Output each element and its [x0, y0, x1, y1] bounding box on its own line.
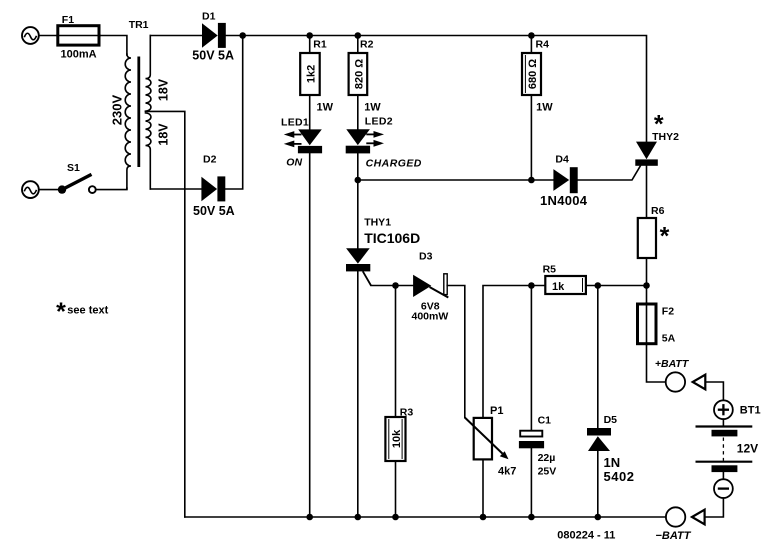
potentiometer P1 [465, 405, 517, 478]
svg-text:−BATT: −BATT [656, 530, 692, 542]
svg-text:*: * [660, 223, 670, 251]
svg-text:P1: P1 [490, 405, 503, 417]
svg-text:4k7: 4k7 [498, 466, 516, 478]
svg-text:1W: 1W [317, 102, 334, 114]
zener diode D3 [412, 251, 449, 323]
svg-text:see text: see text [67, 305, 108, 317]
gate row wire LED2 to D4 [358, 179, 554, 181]
primary winding 230V [125, 54, 131, 189]
wire P1 to bottom rail [482, 459, 484, 517]
secondary winding 18V (bottom) [146, 113, 151, 189]
resistor R1 [300, 39, 333, 114]
wire block to minus circle [722, 472, 724, 479]
wire minus circle to -BATT arrow [705, 498, 724, 517]
node R1 top [306, 32, 313, 39]
svg-text:LED2: LED2 [365, 116, 393, 128]
AC source top [22, 27, 39, 44]
wire R4 to gate row [530, 95, 532, 180]
wire F1 to transformer primary [100, 36, 127, 56]
resistor R2 [349, 39, 382, 114]
terminal +BATT [655, 358, 690, 392]
wire C1 to bottom rail [530, 448, 532, 517]
wire switch to primary [96, 188, 127, 190]
svg-text:820 Ω: 820 Ω [353, 59, 365, 89]
AC source bottom [22, 181, 39, 198]
svg-text:18V: 18V [157, 123, 171, 146]
fuse F2 [638, 303, 676, 345]
resistor R6 [638, 205, 670, 258]
node LED1 bottom rail [306, 514, 313, 521]
node after D1 [239, 32, 246, 39]
wire THY1 cathode to bottom rail [357, 271, 359, 517]
node R5/R6/F2 [643, 282, 650, 289]
wire node to R4 [530, 36, 532, 54]
svg-text:D1: D1 [202, 11, 216, 23]
wire R6 to F2 with node [646, 258, 648, 304]
svg-text:R3: R3 [400, 407, 414, 419]
svg-text:LED1: LED1 [281, 117, 309, 129]
wire D1 to node, top rail [226, 36, 647, 142]
arrow at -BATT [692, 510, 705, 525]
diode D4 [540, 154, 588, 209]
svg-text:1k: 1k [552, 281, 565, 293]
wire THY2 cathode to R6 [646, 166, 648, 218]
svg-text:+BATT: +BATT [655, 358, 690, 370]
svg-text:R2: R2 [360, 39, 374, 51]
wire AC to switch [39, 189, 59, 191]
resistor R3 [385, 407, 413, 462]
svg-text:5A: 5A [662, 333, 676, 345]
node R4 bottom [528, 177, 535, 184]
node C1 top [528, 282, 535, 289]
wire secondary bottom to D2 [150, 188, 201, 190]
svg-text:12V: 12V [737, 442, 758, 456]
terminal -BATT [656, 507, 692, 542]
svg-text:TR1: TR1 [129, 19, 149, 31]
node P1 bottom rail [480, 514, 487, 521]
wire AC to F1 [39, 35, 58, 37]
svg-text:R1: R1 [313, 39, 327, 51]
wire R2 to LED2 [357, 95, 359, 129]
wire arrow to battery [705, 382, 723, 400]
see text note [56, 298, 109, 326]
node R2 top [355, 32, 362, 39]
wire R3 to bottom rail [395, 461, 397, 517]
svg-text:100mA: 100mA [61, 49, 97, 61]
svg-text:D5: D5 [604, 414, 618, 426]
node R4 top [528, 32, 535, 39]
battery BT1 12V [696, 427, 759, 473]
thyristor THY1 [346, 216, 420, 285]
svg-text:R4: R4 [536, 39, 550, 51]
svg-text:25V: 25V [538, 466, 557, 478]
svg-text:THY1: THY1 [364, 216, 391, 228]
wire D5 to bottom rail [597, 451, 599, 517]
battery BT1 plus terminal [714, 400, 761, 419]
secondary winding 18V (top) [146, 36, 151, 112]
svg-text:10k: 10k [391, 429, 403, 448]
LED1 [281, 117, 322, 169]
fuse F1 [57, 14, 100, 61]
wire R3 column [395, 286, 397, 418]
core [137, 57, 140, 168]
svg-text:F2: F2 [662, 306, 674, 318]
svg-text:18V: 18V [157, 78, 171, 101]
svg-text:ON: ON [286, 157, 302, 169]
wire node to R1 [309, 36, 311, 54]
resistor R4 [522, 39, 553, 114]
svg-text:50V 5A: 50V 5A [192, 49, 234, 63]
wire node to R2 [357, 36, 359, 54]
svg-text:1W: 1W [536, 102, 553, 114]
svg-text:*: * [654, 110, 664, 138]
resistor R5 [543, 264, 586, 295]
svg-text:C1: C1 [538, 415, 552, 427]
node D5 bottom rail [595, 514, 602, 521]
diode D2 [193, 154, 235, 219]
diode D5 [587, 414, 634, 484]
node R3 top [392, 282, 399, 289]
svg-text:D2: D2 [203, 154, 217, 166]
svg-text:D3: D3 [419, 251, 433, 263]
svg-text:400mW: 400mW [412, 310, 449, 322]
node LED2 / gate row [355, 177, 362, 184]
transformer TR1 [109, 19, 170, 189]
svg-text:CHARGED: CHARGED [366, 158, 422, 170]
wire D3 to P1 wiper [447, 286, 465, 418]
svg-text:680 Ω: 680 Ω [527, 59, 539, 89]
node D5 top [595, 282, 602, 289]
node R3 bottom rail [392, 514, 399, 521]
svg-text:D4: D4 [555, 154, 569, 166]
capacitor C1 [519, 415, 556, 478]
svg-text:1k2: 1k2 [305, 65, 317, 83]
svg-text:1N4004: 1N4004 [540, 193, 588, 208]
wire D5 column top [597, 286, 599, 429]
wire P1 top to R5 node [483, 286, 545, 418]
wire R1 to LED1 [309, 95, 311, 129]
svg-text:F1: F1 [62, 14, 74, 26]
svg-text:R5: R5 [543, 264, 557, 276]
center tap wire to bottom rail [146, 111, 185, 517]
svg-text:TIC106D: TIC106D [364, 230, 420, 246]
svg-text:22µ: 22µ [538, 452, 556, 464]
svg-text:R6: R6 [651, 205, 665, 217]
wire secondary top to D1 [150, 35, 202, 37]
bottom rail [185, 516, 666, 518]
wire LED1 to bottom rail [309, 153, 311, 517]
svg-text:*: * [56, 298, 66, 326]
wire D4 to THY2 gate [578, 166, 641, 180]
switch S1 [58, 162, 96, 194]
wire C1 column [530, 286, 532, 431]
svg-text:50V 5A: 50V 5A [193, 204, 235, 218]
svg-text:S1: S1 [67, 162, 80, 174]
arrow at +BATT [693, 375, 706, 390]
svg-text:BT1: BT1 [740, 405, 761, 417]
wire node down to D2 cathode [225, 36, 243, 190]
diode D1 [192, 11, 234, 63]
wire F2 to +BATT terminal [647, 345, 666, 383]
svg-text:1W: 1W [364, 102, 381, 114]
wire plus circle to plate [722, 419, 724, 426]
svg-text:230V: 230V [109, 94, 124, 125]
node THY1 bottom rail [355, 514, 362, 521]
battery BT1 minus terminal [714, 479, 733, 498]
svg-text:080224 - 11: 080224 - 11 [557, 530, 615, 542]
thyristor THY2 [635, 110, 679, 165]
node C1 bottom rail [528, 514, 535, 521]
wire R5 to F2 node [586, 285, 647, 287]
svg-text:1N: 1N [604, 455, 621, 470]
LED2 [346, 116, 422, 170]
wire LED2 down through node to THY1 [357, 153, 359, 248]
THY1 gate row wire to D3 [371, 285, 413, 287]
svg-text:5402: 5402 [604, 469, 635, 484]
